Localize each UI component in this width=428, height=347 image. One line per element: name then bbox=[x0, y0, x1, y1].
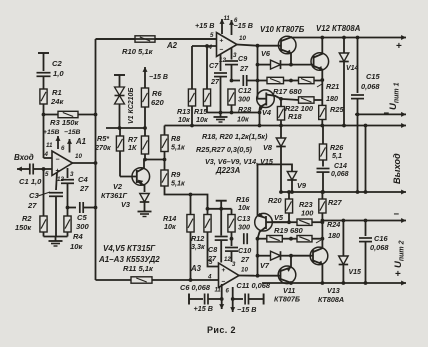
node R8 bottom bbox=[163, 158, 167, 162]
wire V12 emitter column bbox=[321, 80, 323, 105]
svg-text:0,068: 0,068 bbox=[361, 82, 380, 91]
svg-text:R27: R27 bbox=[328, 198, 342, 207]
svg-text:V10 КТ807Б: V10 КТ807Б bbox=[260, 25, 305, 34]
svg-text:10к: 10к bbox=[70, 242, 83, 251]
svg-text:C7: C7 bbox=[209, 61, 219, 70]
svg-text:А3: А3 bbox=[190, 264, 202, 273]
wire V2 collector row bbox=[144, 159, 165, 161]
node R23 right bbox=[321, 220, 325, 224]
bracket wire bottom bbox=[208, 208, 232, 210]
svg-text:−: − bbox=[220, 47, 224, 54]
label +15V A3 bbox=[194, 304, 213, 313]
op-amp A3 bbox=[190, 263, 239, 288]
transistor V2 KT361G bbox=[101, 160, 150, 201]
zener V1 terminal bbox=[114, 75, 125, 87]
svg-text:+: + bbox=[220, 38, 224, 45]
A2 output wire bbox=[237, 45, 258, 46]
diode V9 bbox=[258, 164, 307, 215]
svg-text:−15 В: −15 В bbox=[237, 305, 256, 314]
svg-text:11: 11 bbox=[224, 16, 231, 22]
node R14 bottom bbox=[189, 278, 193, 282]
svg-text:4: 4 bbox=[44, 151, 49, 158]
resistor R27 bbox=[319, 192, 343, 221]
svg-text:10: 10 bbox=[241, 267, 248, 274]
resistor R15 bbox=[194, 44, 211, 124]
capacitor C2 bbox=[37, 59, 65, 89]
label Vyhod bbox=[392, 153, 402, 184]
svg-text:1,0: 1,0 bbox=[53, 69, 64, 78]
resistor R5 bbox=[94, 128, 124, 177]
transistor V11 KT807B bbox=[258, 256, 300, 304]
svg-text:5,1: 5,1 bbox=[332, 151, 342, 160]
label V12 bbox=[316, 24, 361, 33]
node R7 bottom bbox=[143, 158, 147, 162]
diode V14 bbox=[339, 38, 358, 126]
capacitor C8 bbox=[207, 237, 228, 264]
svg-text:C16: C16 bbox=[374, 234, 388, 243]
wire R9 bottom to A3 pin5 bbox=[165, 193, 208, 215]
label Vhod bbox=[14, 153, 34, 162]
resistor R21 bbox=[291, 77, 339, 103]
node R3 right on feedback line bbox=[94, 113, 98, 117]
capacitor C14 bbox=[317, 163, 349, 192]
wire to A1 pin5 bbox=[44, 168, 53, 170]
capacitor C6 bbox=[180, 283, 224, 305]
A2 power arrow pin6 -15V bbox=[229, 20, 234, 35]
node V8 bottom bbox=[279, 190, 283, 194]
capacitor C15 bbox=[351, 38, 380, 193]
node A1 output bbox=[94, 161, 98, 165]
diode V7 bbox=[258, 251, 292, 270]
svg-text:Д223А: Д223А bbox=[215, 166, 241, 175]
svg-text:24к: 24к bbox=[50, 97, 64, 106]
svg-text:C15: C15 bbox=[366, 72, 380, 81]
capacitor C11 bbox=[231, 281, 271, 305]
resistor R11 bbox=[123, 264, 219, 283]
capacitor C10 bbox=[225, 214, 250, 262]
resistor R22 bbox=[281, 97, 322, 113]
resistor R20 bbox=[268, 192, 293, 222]
node R20 bottom bbox=[287, 220, 291, 224]
node R12 bracket bbox=[206, 207, 210, 211]
node V7 left bbox=[256, 254, 260, 258]
svg-text:Вход: Вход bbox=[14, 153, 34, 162]
resistor R19 bbox=[258, 226, 304, 242]
rail -Upit2 bbox=[322, 209, 406, 223]
resistor R17 bbox=[258, 77, 303, 96]
svg-text:5: 5 bbox=[45, 171, 49, 178]
svg-text:С14: С14 bbox=[334, 163, 347, 170]
node R13 bottom on rail B bbox=[190, 124, 194, 128]
svg-text:+15В: +15В bbox=[43, 129, 60, 136]
transistor V5 KT315G bbox=[255, 213, 289, 239]
rail +Upit2 bbox=[262, 269, 406, 286]
node V14 top bbox=[342, 36, 346, 40]
node V10 base bbox=[256, 44, 260, 48]
node R16 bottom bbox=[230, 237, 234, 241]
node input bbox=[42, 167, 46, 171]
A3 pin numbers bbox=[207, 257, 248, 295]
wire V13 emitter column bbox=[321, 221, 323, 248]
svg-text:10к: 10к bbox=[164, 222, 176, 231]
A1 power arrow pin11 +15V bbox=[56, 136, 61, 149]
svg-text:Выход: Выход bbox=[392, 153, 402, 184]
A3 output wire bbox=[239, 275, 258, 277]
transistor V10 KT807B bbox=[258, 25, 305, 65]
label +15V -15V A1 bbox=[43, 129, 81, 136]
note opamps bbox=[98, 255, 160, 264]
svg-text:V2: V2 bbox=[113, 182, 123, 191]
node R21 right bbox=[320, 78, 324, 82]
svg-text:620: 620 bbox=[151, 98, 164, 107]
svg-text:12: 12 bbox=[224, 257, 231, 263]
svg-text:V15: V15 bbox=[349, 269, 362, 276]
caption bbox=[207, 325, 236, 335]
label -15V A2 bbox=[234, 21, 253, 30]
svg-text:C9: C9 bbox=[238, 54, 247, 63]
capacitor C3 bbox=[27, 172, 63, 237]
node R20 top bbox=[287, 190, 291, 194]
svg-text:А1: А1 bbox=[75, 137, 86, 146]
svg-text:R2: R2 bbox=[22, 214, 32, 223]
node C16 top bbox=[364, 219, 368, 223]
A1 output wire bbox=[73, 162, 96, 164]
node V15 bottom bbox=[342, 281, 346, 285]
A3 power arrow pin6 -15V bbox=[230, 287, 235, 312]
node railB v2 bbox=[364, 124, 368, 128]
node C8 stem bbox=[219, 207, 223, 211]
diode V6 bbox=[258, 49, 292, 69]
svg-text:−: − bbox=[394, 209, 400, 220]
svg-text:10: 10 bbox=[75, 153, 82, 160]
note diodes bbox=[205, 157, 274, 166]
A1 pin numbers bbox=[44, 142, 83, 183]
svg-text:300: 300 bbox=[238, 95, 250, 104]
wire A2 pin4 bbox=[192, 45, 217, 47]
svg-text:5: 5 bbox=[209, 259, 213, 266]
resistor R2 bbox=[15, 169, 47, 237]
svg-text:R18: R18 bbox=[288, 112, 302, 121]
diode V15 bbox=[339, 221, 361, 284]
node C15col railC bbox=[356, 190, 360, 194]
svg-text:R21: R21 bbox=[326, 82, 339, 91]
terminal C8 top bbox=[216, 201, 227, 236]
node V13 collector bbox=[321, 281, 325, 285]
resistor R14 bbox=[163, 195, 194, 281]
node V9 bottom bbox=[290, 190, 294, 194]
svg-text:R25: R25 bbox=[330, 105, 344, 114]
rail output bottom bbox=[281, 190, 406, 195]
svg-text:V12 КТ808А: V12 КТ808А bbox=[316, 24, 361, 33]
svg-text:С5: С5 bbox=[77, 213, 87, 222]
node R19 right bbox=[289, 237, 293, 241]
svg-text:С11 0,068: С11 0,068 bbox=[236, 281, 270, 290]
node R14 top bbox=[189, 193, 193, 197]
svg-text:3: 3 bbox=[70, 171, 74, 178]
node V1 bottom bbox=[118, 126, 122, 130]
svg-text:R11 5,1к: R11 5,1к bbox=[123, 264, 154, 273]
op-amp A1 bbox=[52, 137, 86, 176]
note D223A bbox=[215, 166, 241, 175]
node C16 bottom bbox=[364, 281, 368, 285]
capacitor C16 bbox=[359, 221, 389, 284]
svg-text:R19 680: R19 680 bbox=[274, 226, 303, 235]
svg-text:КТ361Г: КТ361Г bbox=[101, 191, 127, 200]
wire A2 output vertical bbox=[257, 46, 259, 99]
svg-text:−15В: −15В bbox=[64, 129, 81, 136]
svg-text:R24: R24 bbox=[327, 220, 340, 229]
svg-text:R25,R27 0,3(0,5): R25,R27 0,3(0,5) bbox=[196, 145, 253, 154]
transistor V13 KT808A bbox=[291, 247, 344, 304]
svg-text:R3 150к: R3 150к bbox=[50, 118, 79, 127]
svg-text:−15 В: −15 В bbox=[149, 74, 168, 81]
label Upit2 bbox=[393, 240, 406, 268]
wire top horizontal bbox=[96, 38, 136, 40]
wire A2 pin5 entry bbox=[96, 38, 217, 40]
svg-text:3,3к: 3,3к bbox=[191, 242, 205, 251]
label Upit1 bbox=[384, 82, 401, 119]
capacitor C1 bbox=[19, 164, 44, 187]
wire R23 right bbox=[312, 221, 322, 223]
svg-text:+15 В: +15 В bbox=[195, 21, 214, 30]
capacitor C2 top terminal bbox=[38, 53, 49, 71]
resistor R7 bbox=[128, 128, 149, 160]
resistor R25 bbox=[319, 105, 345, 126]
svg-text:V9: V9 bbox=[297, 181, 307, 190]
svg-text:27: 27 bbox=[79, 184, 89, 193]
node v2 railC bbox=[364, 190, 368, 194]
svg-text:КТ808А: КТ808А bbox=[318, 295, 344, 304]
node V11 collector bbox=[289, 281, 293, 285]
svg-text:R1: R1 bbox=[52, 88, 62, 97]
transistor V12 KT808A bbox=[291, 38, 329, 81]
resistor R8 bbox=[161, 134, 185, 160]
node R24 right bbox=[321, 237, 325, 241]
resistor R10 bbox=[122, 36, 217, 56]
node V7 right bbox=[289, 254, 293, 258]
resistor R24 bbox=[291, 220, 340, 243]
node C15 bottom bbox=[356, 113, 360, 117]
resistor R9 bbox=[161, 160, 185, 194]
rail output top bbox=[165, 123, 407, 128]
resistor R26 bbox=[319, 126, 344, 167]
wire top bracket bbox=[207, 112, 260, 114]
svg-text:6: 6 bbox=[61, 145, 65, 152]
svg-text:+: + bbox=[396, 41, 402, 52]
node C9 bottom bbox=[230, 79, 234, 83]
node V6 anode bbox=[256, 63, 260, 67]
node V14 bottom bbox=[342, 124, 346, 128]
svg-text:3: 3 bbox=[233, 52, 237, 59]
node R18 top bbox=[279, 97, 283, 101]
svg-text:+: + bbox=[395, 269, 401, 280]
svg-text:С8: С8 bbox=[208, 245, 217, 254]
resistor R23 bbox=[272, 200, 315, 225]
svg-text:27: 27 bbox=[210, 77, 220, 86]
diode V3 bbox=[121, 194, 149, 210]
resistor R6 bbox=[141, 80, 164, 128]
node R28 bottom bbox=[230, 111, 234, 115]
op-amp A2 bbox=[166, 33, 237, 57]
node C5 feedback bbox=[94, 206, 98, 210]
svg-text:27: 27 bbox=[239, 64, 249, 73]
note transistors bbox=[103, 244, 156, 253]
rail +Upit1 bbox=[291, 35, 406, 52]
svg-text:Рис. 2: Рис. 2 bbox=[207, 325, 236, 335]
svg-text:270к: 270к bbox=[94, 143, 111, 152]
node V15 top bbox=[342, 219, 346, 223]
svg-text:+15 В: +15 В bbox=[194, 304, 213, 313]
svg-text:V3: V3 bbox=[121, 200, 131, 209]
ground C7 bbox=[214, 113, 228, 123]
node R18 bottom bbox=[279, 124, 283, 128]
arrow -15V R6 bbox=[143, 67, 168, 81]
node R25 bottom bbox=[320, 124, 324, 128]
wire R3 left bbox=[44, 114, 59, 116]
node C14 bottom bbox=[321, 190, 325, 194]
svg-text:+: + bbox=[222, 267, 226, 274]
svg-text:27: 27 bbox=[240, 255, 250, 264]
capacitor C13 bbox=[238, 233, 251, 264]
svg-text:10к: 10к bbox=[178, 115, 190, 124]
svg-text:−: − bbox=[56, 157, 60, 164]
capacitor C4 bbox=[61, 168, 89, 216]
capacitor C5 bbox=[68, 202, 96, 231]
node R17-R21 V10 emitter bbox=[289, 79, 293, 83]
A1 power arrow pin6 -15V bbox=[67, 139, 72, 153]
node R27 rail D bbox=[321, 219, 325, 223]
node C15 top bbox=[356, 36, 360, 40]
svg-text:180: 180 bbox=[326, 94, 338, 103]
svg-text:4: 4 bbox=[207, 274, 212, 281]
svg-text:V4: V4 bbox=[262, 108, 271, 117]
svg-text:R17 680: R17 680 bbox=[273, 87, 302, 96]
note R18 R20 bbox=[202, 132, 268, 141]
svg-text:V13: V13 bbox=[327, 286, 340, 295]
svg-text:11: 11 bbox=[46, 142, 53, 149]
svg-text:С1 1,0: С1 1,0 bbox=[19, 177, 42, 186]
svg-text:10к: 10к bbox=[237, 115, 249, 124]
resistor R4 bbox=[64, 216, 84, 251]
svg-text:КТ807Б: КТ807Б bbox=[274, 295, 300, 304]
svg-text:V7: V7 bbox=[260, 261, 270, 270]
svg-text:4: 4 bbox=[208, 44, 213, 51]
svg-text:10к: 10к bbox=[238, 203, 250, 212]
node ground stem top bbox=[219, 111, 223, 115]
svg-text:27: 27 bbox=[27, 201, 37, 210]
node V4 emitter junction bbox=[258, 111, 262, 115]
svg-text:C2: C2 bbox=[52, 59, 62, 68]
svg-text:R18, R20 1,2к(1,5к): R18, R20 1,2к(1,5к) bbox=[202, 132, 268, 141]
A3 power arrow pin11 +15V bbox=[219, 284, 224, 309]
svg-text:5,1к: 5,1к bbox=[171, 143, 185, 152]
label +15V A2 bbox=[195, 21, 214, 30]
input terminal arrow bbox=[17, 167, 30, 172]
wire feedback vertical bbox=[95, 39, 97, 280]
rail -Upit1 bbox=[355, 112, 406, 117]
A2 pin numbers bbox=[208, 16, 247, 64]
label -15V A3 bbox=[237, 305, 256, 314]
node V12 collector bbox=[320, 36, 324, 40]
node V4 emitter on rail B bbox=[258, 124, 262, 128]
svg-text:V5: V5 bbox=[274, 213, 284, 222]
svg-text:V8: V8 bbox=[263, 143, 273, 152]
node R27 top bbox=[321, 190, 325, 194]
node V6 cathode bbox=[289, 63, 293, 67]
zener V1 KS210B bbox=[115, 87, 125, 128]
resistor R13 bbox=[177, 46, 196, 126]
ground V3 bbox=[138, 207, 152, 217]
resistor R28 bbox=[228, 89, 251, 124]
svg-text:R6: R6 bbox=[152, 89, 162, 98]
label V1 bbox=[128, 88, 135, 124]
capacitor C9 bbox=[225, 48, 249, 81]
svg-text:180: 180 bbox=[328, 231, 340, 240]
svg-text:А2: А2 bbox=[166, 41, 178, 50]
svg-text:V6: V6 bbox=[261, 49, 271, 58]
A2 power arrow pin11 +15V bbox=[220, 19, 225, 34]
svg-text:1К: 1К bbox=[128, 143, 137, 152]
svg-text:V4,V5 КТ315Г: V4,V5 КТ315Г bbox=[103, 244, 156, 253]
note R25 R27 bbox=[196, 145, 253, 154]
node C12-R17 bbox=[256, 79, 260, 83]
svg-text:10: 10 bbox=[239, 35, 246, 42]
node C4-R4-C5 bbox=[66, 206, 70, 210]
svg-text:R20: R20 bbox=[268, 196, 282, 205]
svg-text:10к: 10к bbox=[196, 115, 208, 124]
svg-text:5,1к: 5,1к bbox=[171, 179, 185, 188]
capacitor C7 bbox=[209, 54, 227, 113]
svg-text:5: 5 bbox=[210, 32, 214, 39]
wire V1-R6 junction bbox=[106, 127, 145, 129]
wire A3 output vertical bbox=[257, 239, 259, 276]
svg-text:R10 5,1к: R10 5,1к bbox=[122, 47, 154, 56]
wire rail-B left corner to R8 bbox=[164, 126, 166, 136]
svg-text:100: 100 bbox=[301, 209, 314, 218]
svg-text:А1–А3 К553УД2: А1–А3 К553УД2 bbox=[98, 255, 160, 264]
resistor R3 bbox=[50, 111, 96, 127]
capacitor C12 bbox=[232, 75, 259, 104]
resistor R1 bbox=[40, 88, 65, 115]
svg-text:R5*: R5* bbox=[97, 134, 110, 143]
svg-text:0,068: 0,068 bbox=[370, 243, 389, 252]
ground A1 bbox=[44, 237, 68, 247]
node R1-R3 bbox=[42, 113, 46, 117]
node A3 output bbox=[256, 274, 260, 278]
transistor V4 KT315G bbox=[257, 90, 281, 126]
resistor R18 bbox=[277, 99, 302, 126]
svg-text:300: 300 bbox=[76, 222, 89, 231]
svg-text:С4: С4 bbox=[78, 175, 88, 184]
svg-text:V1 КС210Б: V1 КС210Б bbox=[128, 88, 135, 124]
node V5 base bbox=[256, 237, 260, 241]
diode V8 bbox=[263, 126, 286, 193]
wire inverting input A1 bbox=[44, 115, 53, 159]
wire bottom horizontal bbox=[96, 279, 132, 281]
svg-text:11: 11 bbox=[215, 288, 222, 294]
svg-text:300: 300 bbox=[238, 223, 250, 232]
svg-text:0,068: 0,068 bbox=[331, 171, 349, 178]
svg-text:150к: 150к bbox=[15, 223, 32, 232]
node R6 bottom bbox=[143, 126, 147, 130]
resistor R12 bbox=[191, 215, 219, 267]
resistor R16 bbox=[228, 195, 250, 239]
svg-text:R4: R4 bbox=[73, 232, 83, 241]
svg-text:С6 0,068: С6 0,068 bbox=[180, 283, 211, 292]
svg-text:C10: C10 bbox=[238, 246, 251, 255]
wire v2 vertical bbox=[365, 126, 367, 193]
